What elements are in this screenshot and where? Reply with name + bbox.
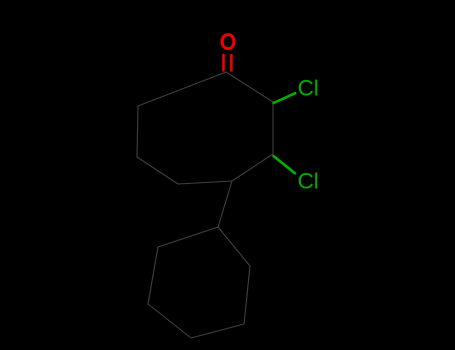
green bond C2-Cl1 (274, 93, 296, 173)
lower ring bond E-F (148, 247, 158, 304)
bond C2-C3 (272, 102, 274, 154)
bond C1-C9 (long left bond) (138, 72, 226, 106)
lower ring bond D-E (158, 227, 218, 247)
svg-text:Cl: Cl (298, 168, 319, 193)
bond C4-C10 (to lower ring) (218, 181, 232, 227)
bond C1-C2 (226, 72, 273, 102)
bond C8-C7 (137, 157, 178, 184)
bond C7-C4 (178, 181, 232, 184)
svg-text:O: O (220, 29, 237, 55)
lower ring bond H-I (244, 266, 250, 324)
bond C9-C8 (137, 106, 138, 157)
svg-text:Cl: Cl (298, 75, 319, 100)
C1=O double bond (red) (224, 54, 232, 72)
lower ring bond I-D (218, 227, 250, 266)
green bond C3-Cl2 (274, 156, 296, 173)
gray carbon skeleton (137, 72, 273, 338)
bond C3-C4 (232, 154, 273, 181)
lower ring bond G-H (191, 324, 244, 338)
lower ring bond F-G (148, 304, 191, 338)
